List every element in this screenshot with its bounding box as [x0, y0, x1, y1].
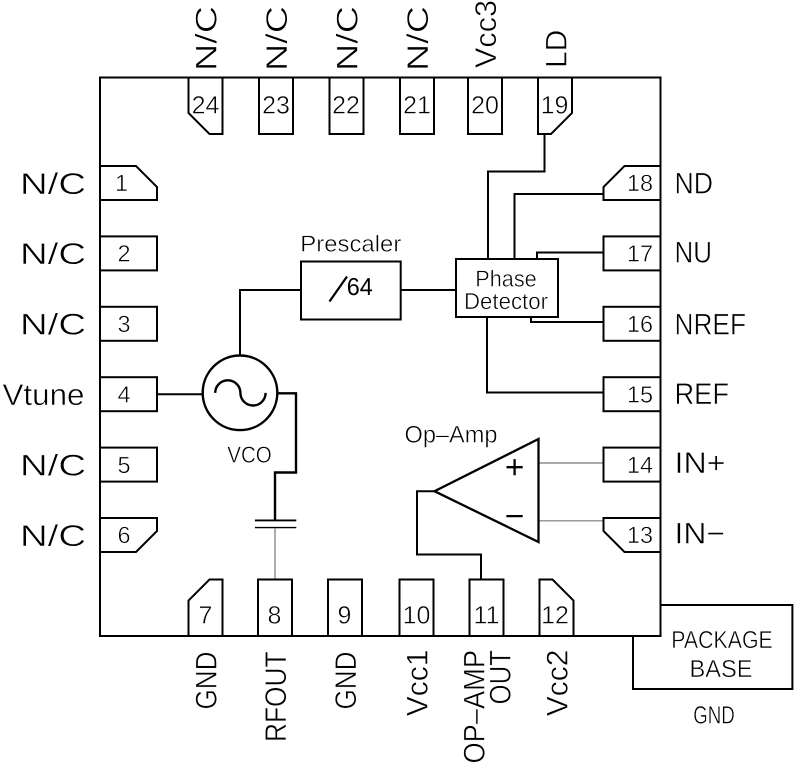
svg-text:N/C: N/C — [20, 520, 86, 553]
svg-text:1: 1 — [115, 170, 128, 196]
svg-text:RFOUT: RFOUT — [260, 652, 293, 743]
svg-text:Vcc2: Vcc2 — [541, 650, 574, 717]
svg-text:N/C: N/C — [20, 309, 86, 342]
svg-text:OUT: OUT — [485, 650, 518, 705]
svg-text:LD: LD — [540, 30, 573, 68]
svg-text:GND: GND — [330, 652, 363, 710]
svg-text:Op–Amp: Op–Amp — [405, 422, 498, 449]
svg-text:16: 16 — [627, 311, 653, 337]
svg-text:23: 23 — [262, 92, 290, 120]
svg-text:N/C: N/C — [20, 449, 86, 482]
svg-text:N/C: N/C — [20, 238, 86, 271]
svg-text:NREF: NREF — [675, 308, 747, 341]
svg-text:Vcc1: Vcc1 — [401, 650, 434, 717]
svg-text:13: 13 — [627, 522, 653, 548]
svg-text:Vcc3: Vcc3 — [470, 0, 503, 68]
svg-text:9: 9 — [338, 602, 352, 630]
svg-text:3: 3 — [117, 311, 130, 337]
svg-text:N/C: N/C — [20, 168, 86, 201]
svg-text:24: 24 — [192, 92, 220, 120]
svg-text:19: 19 — [541, 92, 569, 120]
svg-text:64: 64 — [347, 274, 373, 301]
svg-text:N/C: N/C — [331, 6, 364, 71]
svg-text:GND: GND — [190, 652, 223, 710]
svg-text:PACKAGE: PACKAGE — [671, 627, 773, 654]
svg-text:12: 12 — [541, 602, 569, 630]
svg-text:15: 15 — [627, 381, 653, 407]
svg-text:IN−: IN− — [675, 518, 726, 551]
svg-text:REF: REF — [675, 378, 730, 411]
svg-text:11: 11 — [474, 602, 500, 630]
svg-text:NU: NU — [675, 237, 713, 270]
svg-text:Detector: Detector — [464, 288, 548, 314]
svg-text:BASE: BASE — [690, 656, 753, 683]
svg-text:6: 6 — [117, 522, 130, 548]
svg-text:17: 17 — [627, 241, 653, 267]
svg-text:VCO: VCO — [227, 442, 272, 468]
svg-text:N/C: N/C — [402, 6, 435, 71]
svg-text:ND: ND — [675, 168, 714, 201]
svg-text:4: 4 — [117, 381, 130, 407]
svg-text:10: 10 — [403, 602, 431, 630]
svg-text:14: 14 — [627, 452, 653, 478]
svg-text:22: 22 — [332, 92, 360, 120]
svg-text:18: 18 — [627, 170, 653, 196]
svg-text:N/C: N/C — [261, 6, 294, 71]
svg-text:Prescaler: Prescaler — [300, 231, 401, 257]
svg-text:IN+: IN+ — [675, 447, 726, 480]
svg-text:5: 5 — [117, 452, 130, 478]
svg-text:GND: GND — [693, 702, 735, 730]
svg-text:Vtune: Vtune — [3, 379, 85, 412]
svg-text:N/C: N/C — [190, 6, 223, 71]
svg-text:7: 7 — [199, 602, 213, 630]
svg-text:21: 21 — [403, 92, 431, 120]
svg-text:8: 8 — [268, 602, 282, 630]
svg-text:20: 20 — [471, 92, 499, 120]
svg-text:2: 2 — [117, 241, 130, 267]
